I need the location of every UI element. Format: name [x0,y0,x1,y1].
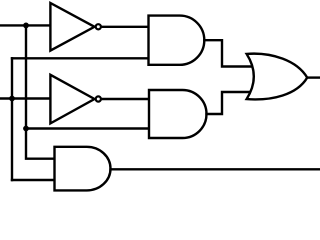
wire U1 output to AND1 [102,26,150,28]
inverter U1 [50,3,101,51]
or-gate U5 [247,54,308,100]
wire AND3 output [111,168,320,170]
wire U2 output to AND2 [102,98,151,100]
wire A to AND2 input [26,127,150,129]
wire A to AND3 input [26,129,56,159]
inverter U2 [50,75,101,124]
node A junction 1 [23,23,29,29]
wire input B [0,97,51,99]
and-gate U6 [55,147,111,191]
and-gate U3 [149,16,205,65]
wire B down branch [11,99,13,181]
wire U4 output to OR [207,92,256,114]
wire OR output [307,76,320,78]
node A junction 2 [23,126,29,132]
wire U3 output to OR [204,40,255,66]
wire B to AND3 input [12,179,56,181]
wire B to AND1 input [12,57,150,59]
wire B up branch [11,58,13,98]
and-gate U4 [149,90,207,138]
node B junction [9,96,15,102]
wire input A [0,24,50,26]
wire A vertical branch [25,25,27,128]
